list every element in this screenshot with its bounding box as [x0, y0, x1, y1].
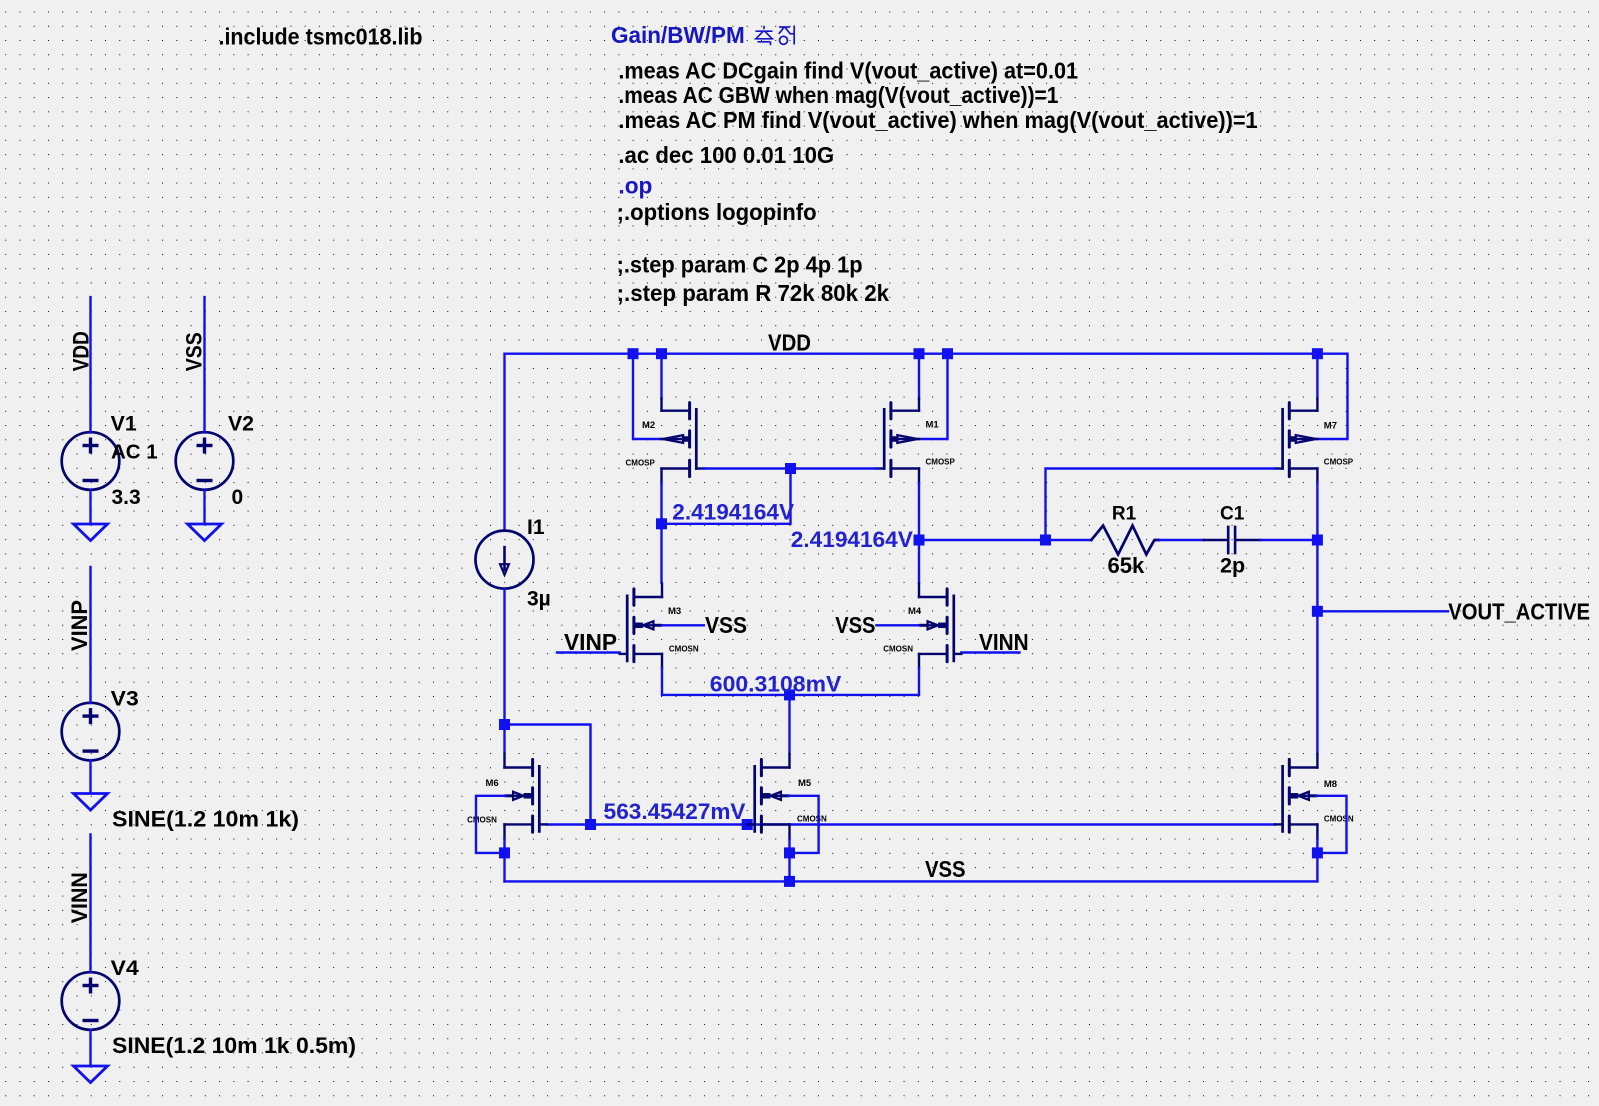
directive .include tsmc018.lib: [219, 24, 423, 50]
transistor M6 (NMOS mirrored): [505, 754, 547, 839]
wire output node to R1: [919, 539, 1091, 541]
label V2: [228, 413, 254, 436]
svg-text:VINP: VINP: [67, 600, 92, 651]
svg-text:VDD: VDD: [69, 331, 94, 371]
transistor M8 (NMOS): [1275, 754, 1317, 839]
svg-text:CMOSN: CMOSN: [467, 816, 497, 825]
net label VSS at M4 bulk: [835, 612, 875, 638]
svg-text:0: 0: [232, 486, 244, 509]
value 2p: [1220, 554, 1245, 578]
label V4: [111, 957, 139, 980]
junction output stage 1: [914, 535, 925, 546]
wire M1 drain to M4 drain: [918, 483, 920, 583]
wire differential pair tail: [662, 668, 919, 695]
voltage source V4 (VINN input): [62, 972, 120, 1030]
svg-text:CMOSP: CMOSP: [926, 458, 956, 467]
svg-text:Gain/BW/PM: Gain/BW/PM: [611, 22, 745, 48]
label R1: [1112, 503, 1137, 524]
wire I1 to M6 drain: [503, 589, 505, 753]
junction VDD/M2 bulk: [628, 348, 639, 359]
svg-text:CMOSN: CMOSN: [797, 815, 827, 824]
wire VINP to V3+: [89, 567, 91, 703]
value SINE(1.2 10m 1k 0.5m): [112, 1033, 356, 1058]
svg-text:2p: 2p: [1220, 554, 1245, 578]
svg-text:M4: M4: [908, 606, 922, 617]
transistor M7 (PMOS): [1275, 398, 1317, 483]
svg-text:65k: 65k: [1108, 553, 1145, 578]
svg-text:V2: V2: [228, 413, 254, 436]
wire M7 gate riser: [1046, 469, 1276, 541]
svg-text:.meas AC DCgain find V(vout_ac: .meas AC DCgain find V(vout_active) at=0…: [618, 58, 1078, 84]
svg-text:VINN: VINN: [979, 629, 1029, 655]
svg-text:VSS: VSS: [182, 332, 207, 371]
wire M7 source to VDD: [1316, 354, 1318, 399]
wire VINN to M4 gate: [961, 651, 1019, 653]
svg-text:.op: .op: [618, 173, 652, 199]
directive .meas GBW: [618, 82, 1058, 108]
wire V3- to ground: [89, 760, 91, 793]
current source I1: [476, 531, 534, 589]
comment Korean 'measurement' glyphs: [755, 26, 795, 46]
svg-text:CMOSN: CMOSN: [883, 644, 913, 653]
wire M2 bulk to VDD: [633, 354, 660, 439]
label M4: [908, 606, 922, 617]
junction M5 source/VSS rail: [784, 876, 795, 887]
junction M5 source/bulk: [784, 847, 795, 858]
capacitor C1: [1204, 526, 1261, 555]
junction VDD/M7 source: [1312, 348, 1323, 359]
svg-text:M3: M3: [668, 606, 681, 617]
junction M6 source/bulk: [499, 847, 510, 858]
model CMOSP of M2: [626, 459, 656, 468]
wire M2 drain to M3 drain: [660, 483, 662, 583]
directive .ac dec: [618, 142, 834, 168]
label I1: [527, 516, 545, 539]
svg-text:VSS: VSS: [705, 612, 747, 638]
wire M8 bulk loop: [1316, 796, 1346, 853]
svg-text:CMOSP: CMOSP: [1324, 457, 1354, 466]
svg-text:C1: C1: [1220, 503, 1245, 524]
svg-text:VINP: VINP: [564, 629, 617, 655]
wire R1 to C1: [1159, 539, 1204, 541]
voltage source V2 (VSS supply): [176, 432, 234, 490]
net label VDD (rotated): [69, 331, 94, 371]
value 3.3: [112, 486, 141, 509]
label C1: [1220, 503, 1245, 524]
node voltage 600.3108mV: [710, 672, 842, 697]
transistor M5 (NMOS): [747, 754, 789, 839]
wire M1 bulk to VDD: [920, 354, 947, 439]
junction VDD/M1 bulk: [942, 348, 953, 359]
svg-text:.ac dec 100 0.01 10G: .ac dec 100 0.01 10G: [618, 142, 834, 168]
model CMOSN of M8: [1324, 815, 1354, 824]
svg-text:VSS: VSS: [835, 612, 875, 638]
model CMOSN of M5: [797, 815, 827, 824]
svg-text:3µ: 3µ: [527, 588, 551, 611]
value 3u: [527, 588, 551, 611]
wire M5 bulk loop: [788, 796, 818, 853]
label M3: [668, 606, 681, 617]
value 65k: [1108, 553, 1145, 578]
svg-text:;.options logopinfo: ;.options logopinfo: [617, 199, 817, 225]
svg-text:600.3108mV: 600.3108mV: [710, 672, 842, 697]
wire M1 source to VDD: [918, 354, 920, 399]
directive .meas DCgain: [618, 58, 1078, 84]
svg-text:M7: M7: [1324, 420, 1337, 431]
value AC 1: [111, 441, 158, 464]
junction tail/M5 drain: [784, 689, 795, 700]
label M8: [1324, 779, 1337, 790]
label V1: [111, 413, 137, 436]
svg-text:V3: V3: [111, 688, 139, 711]
net label VOUT_ACTIVE: [1448, 598, 1590, 624]
wire VSS rail: [505, 880, 1318, 882]
comment ;.step param C: [617, 251, 863, 277]
junction bias/M5 gate: [742, 819, 753, 830]
wire M6 source to VSS rail: [503, 839, 505, 882]
net label VINN (rotated): [67, 872, 92, 923]
net label VINP (rotated): [67, 600, 92, 651]
svg-text:.meas AC PM find V(vout_active: .meas AC PM find V(vout_active) when mag…: [618, 107, 1257, 133]
svg-text:VINN: VINN: [67, 872, 92, 923]
model CMOSP of M1: [926, 458, 956, 467]
model CMOSP of M7: [1324, 457, 1354, 466]
comment ;.step param R: [617, 280, 889, 306]
svg-text:;.step param C 2p 4p 1p: ;.step param C 2p 4p 1p: [617, 251, 863, 277]
svg-text:VOUT_ACTIVE: VOUT_ACTIVE: [1448, 598, 1590, 624]
label M7: [1324, 420, 1337, 431]
junction I1/M6 drain: [499, 719, 510, 730]
junction bias/I1 drop: [585, 819, 596, 830]
comment Gain/BW/PM: [611, 22, 745, 48]
transistor M4 (NMOS mirrored): [919, 584, 961, 669]
wire M8 source to VSS rail: [1316, 839, 1318, 882]
wire bias net 563mV: [547, 823, 1275, 825]
ground of V1: [74, 524, 108, 541]
svg-text:V1: V1: [111, 413, 137, 436]
node voltage 563.45427mV: [604, 799, 746, 824]
svg-text:;.step param R 72k 80k 2k: ;.step param R 72k 80k 2k: [617, 280, 889, 306]
wire M3 bulk to VSS flag: [662, 624, 704, 626]
svg-text:563.45427mV: 563.45427mV: [604, 799, 746, 824]
wire V2- to ground: [203, 490, 205, 525]
voltage source V1 (VDD supply): [62, 432, 120, 490]
directive .op: [618, 173, 652, 199]
svg-text:2.4194164V: 2.4194164V: [672, 500, 794, 525]
wire tail down to M5 drain: [788, 695, 790, 754]
model CMOSN of M6: [467, 816, 497, 825]
label M5: [798, 778, 812, 789]
value SINE(1.2 10m 1k): [112, 807, 299, 832]
wire M2 source to VDD: [660, 354, 662, 399]
wire M4 bulk to VSS flag: [877, 624, 919, 626]
label M1: [926, 420, 940, 431]
junction M8 source/bulk: [1312, 847, 1323, 858]
svg-text:I1: I1: [527, 516, 545, 539]
value 0: [232, 486, 244, 509]
wire M5 source to VSS rail: [788, 839, 790, 882]
wire VDD rail: [505, 354, 1348, 531]
svg-text:VSS: VSS: [925, 856, 966, 882]
voltage source V3 (VINP input): [62, 703, 120, 761]
net label VSS (rotated): [182, 332, 207, 371]
wire M6 bulk loop: [476, 796, 506, 853]
net label VSS at rail: [925, 856, 966, 882]
comment ;.options logopinfo: [617, 199, 817, 225]
label M6: [486, 778, 499, 789]
svg-text:2.4194164V: 2.4194164V: [791, 527, 913, 552]
svg-text:SINE(1.2 10m 1k): SINE(1.2 10m 1k): [112, 807, 299, 832]
wire M7 drain to M8 drain: [1316, 483, 1318, 754]
resistor R1: [1091, 526, 1159, 555]
svg-text:3.3: 3.3: [112, 486, 141, 509]
transistor M2 (PMOS mirrored): [662, 398, 704, 483]
label V3: [111, 688, 139, 711]
net label VINP at M3: [564, 629, 617, 655]
node voltage 2.4194164V (left): [672, 500, 794, 525]
wire mirror node down to M2 drain: [662, 469, 791, 524]
ground of V3: [74, 794, 108, 811]
wire VSS to V2+: [203, 297, 205, 432]
svg-text:CMOSN: CMOSN: [1324, 815, 1354, 824]
junction M7 gate tap: [1040, 535, 1051, 546]
wire VINN to V4+: [89, 834, 91, 972]
svg-text:AC 1: AC 1: [111, 441, 158, 464]
svg-text:M8: M8: [1324, 779, 1337, 790]
node voltage 2.4194164V (right): [791, 527, 913, 552]
wire VINP to M3 gate: [557, 651, 620, 653]
model CMOSN of M4: [883, 644, 913, 653]
junction M2 drain node: [656, 518, 667, 529]
directive .meas PM: [618, 107, 1257, 133]
net label VDD: [768, 330, 811, 356]
svg-text:VDD: VDD: [768, 330, 811, 356]
wire VDD to V1+: [89, 297, 91, 432]
junction VDD/M1 source: [914, 348, 925, 359]
svg-text:V4: V4: [111, 957, 139, 980]
wire V4- to ground: [89, 1030, 91, 1066]
junction output/C1: [1312, 535, 1323, 546]
svg-text:M5: M5: [798, 778, 812, 789]
label M2: [642, 420, 655, 431]
net label VSS at M3 bulk: [705, 612, 747, 638]
wire mirror gate node M2-M1: [704, 467, 877, 469]
junction VOUT tap: [1312, 606, 1323, 617]
svg-text:M1: M1: [926, 420, 940, 431]
junction VDD/M2 source: [656, 348, 667, 359]
model CMOSN of M3: [669, 644, 699, 653]
transistor M3 (NMOS): [620, 584, 662, 669]
svg-text:R1: R1: [1112, 503, 1137, 524]
ground of V4: [74, 1066, 108, 1083]
transistor M1 (PMOS): [877, 398, 919, 483]
wire C1 to M7 drain: [1261, 539, 1318, 541]
svg-text:M2: M2: [642, 420, 655, 431]
svg-text:M6: M6: [486, 778, 499, 789]
net label VINN at M4: [979, 629, 1029, 655]
ground of V2: [188, 524, 222, 541]
svg-text:SINE(1.2 10m 1k 0.5m): SINE(1.2 10m 1k 0.5m): [112, 1033, 356, 1058]
wire V1- to ground: [89, 490, 91, 525]
wire I1 node to bias net: [505, 725, 591, 825]
svg-text:CMOSP: CMOSP: [626, 459, 656, 468]
wire VOUT_ACTIVE flag: [1317, 610, 1448, 612]
svg-text:.include tsmc018.lib: .include tsmc018.lib: [219, 24, 423, 50]
junction mirror node: [785, 463, 796, 474]
svg-text:CMOSN: CMOSN: [669, 644, 699, 653]
svg-text:.meas AC GBW when mag(V(vout_a: .meas AC GBW when mag(V(vout_active))=1: [618, 82, 1058, 108]
